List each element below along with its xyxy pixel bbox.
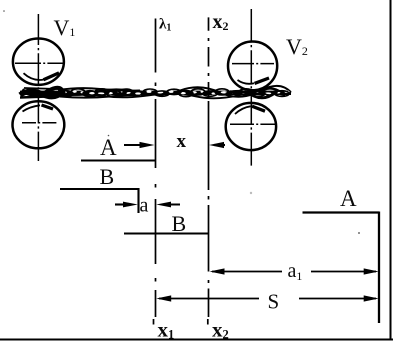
svg-text:B: B [100, 164, 115, 189]
svg-text:B: B [172, 211, 187, 236]
svg-text:A: A [100, 135, 117, 160]
svg-text:A: A [340, 186, 357, 211]
svg-text:S: S [268, 290, 280, 314]
svg-text:x: x [177, 131, 187, 152]
svg-text:a: a [140, 195, 149, 217]
